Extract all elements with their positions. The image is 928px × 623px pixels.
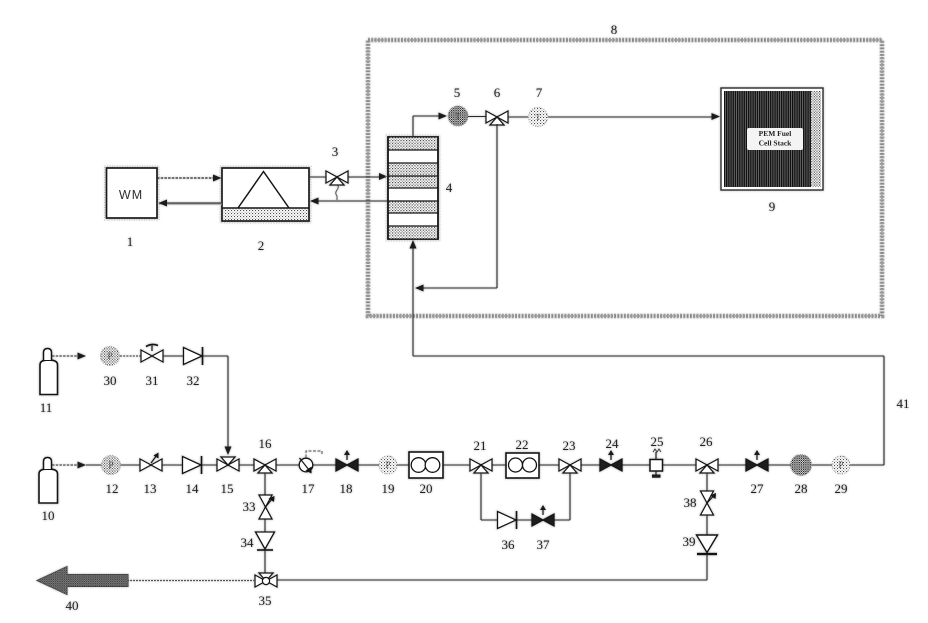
wire 4-top to 5 (413, 113, 447, 138)
three-way valve 35 (255, 573, 277, 587)
valve 31 (141, 344, 163, 362)
check valve 36 (498, 511, 517, 529)
svg-text:16: 16 (259, 436, 273, 451)
wire 2-to-4 supply through valve 3 (309, 173, 388, 180)
wire 5-to-6 (468, 116, 487, 118)
svg-text:31: 31 (146, 373, 159, 388)
gas cylinder 11 (40, 349, 58, 395)
svg-text:9: 9 (769, 199, 776, 214)
svg-text:35: 35 (259, 593, 272, 608)
wire 32 to valve 15 drop (203, 356, 232, 455)
svg-text:39: 39 (683, 534, 696, 549)
svg-text:4: 4 (446, 180, 453, 195)
svg-text:P: P (107, 351, 112, 361)
svg-text:WM: WM (119, 188, 143, 202)
valve 13 (140, 453, 162, 472)
svg-text:19: 19 (382, 481, 395, 496)
svg-text:27: 27 (751, 481, 765, 496)
wire 11-to-30 (52, 353, 86, 360)
check valve 34 (256, 532, 275, 550)
valve 18 (336, 450, 358, 471)
svg-text:30: 30 (104, 373, 117, 388)
enclosure box 8 (test station boundary) (368, 40, 882, 316)
wire 1-to-2 supply (157, 175, 222, 182)
svg-text:18: 18 (340, 481, 353, 496)
valve 24 (600, 450, 622, 471)
svg-text:17: 17 (302, 481, 316, 496)
three-way valve 23 (559, 459, 581, 473)
svg-text:15: 15 (221, 481, 234, 496)
heat exchanger box 2 (220, 166, 311, 223)
svg-text:8: 8 (611, 22, 618, 37)
three-way valve 3 (326, 171, 348, 200)
svg-text:38: 38 (684, 495, 697, 510)
svg-text:P: P (838, 460, 843, 470)
svg-text:P: P (108, 460, 113, 470)
water module box 1 (WM) (105, 166, 160, 220)
three-way valve 21 (470, 459, 492, 473)
wire 30-to-31 (120, 355, 141, 357)
gas cylinder 10 (39, 458, 58, 504)
svg-text:25: 25 (651, 434, 664, 449)
sensor 5 (speckled instrument) (448, 106, 468, 126)
vent line to exhaust (128, 579, 707, 582)
wire 4-to-2 return (310, 198, 388, 205)
sensor 19 (pressure) (379, 456, 397, 474)
svg-text:11: 11 (40, 400, 53, 415)
valve 37 (532, 505, 554, 526)
three-way valve 15 (217, 457, 239, 471)
svg-text:23: 23 (563, 438, 576, 453)
svg-text:14: 14 (186, 481, 200, 496)
check valve 32 (184, 347, 203, 365)
svg-text:26: 26 (700, 434, 714, 449)
wire 2-to-1 return (159, 200, 223, 207)
svg-text:T: T (536, 113, 541, 122)
svg-text:10: 10 (42, 508, 55, 523)
svg-text:3: 3 (332, 144, 339, 159)
svg-text:20: 20 (420, 481, 433, 496)
svg-text:T: T (456, 112, 461, 121)
check valve 14 (183, 456, 202, 474)
svg-text:22: 22 (516, 437, 529, 452)
svg-text:1: 1 (127, 234, 134, 249)
sensor 29 (pressure) (832, 456, 850, 474)
svg-text:40: 40 (66, 598, 79, 613)
vent wire 26 down (706, 473, 708, 580)
flow meter 20 (409, 452, 443, 478)
back-pressure regulator 25 (650, 449, 663, 478)
flow meter 22 (506, 453, 539, 478)
svg-text:21: 21 (474, 438, 487, 453)
three-way valve 26 (696, 459, 718, 473)
svg-text:12: 12 (106, 481, 119, 496)
wire 31-to-32 (163, 355, 183, 357)
sensor 7 (speckled instrument) (529, 108, 548, 127)
svg-text:34: 34 (241, 535, 255, 550)
wire 7-to-9 (548, 113, 720, 120)
exhaust arrow 40 (37, 567, 128, 595)
valve 38 (701, 491, 717, 515)
bypass wire 21-36-37-23 (481, 473, 570, 520)
svg-text:33: 33 (243, 499, 256, 514)
three-way valve 16 (254, 459, 276, 473)
svg-text:32: 32 (187, 373, 200, 388)
valve 27 (746, 450, 768, 471)
svg-text:PEM Fuel: PEM Fuel (759, 129, 792, 138)
three-way valve 6 (486, 111, 508, 125)
main process line (52, 462, 884, 469)
wire 6 bypass to humidifier return line (415, 124, 497, 292)
purge wire 16 down to vent line (264, 473, 266, 580)
svg-text:6: 6 (494, 85, 501, 100)
svg-text:41: 41 (897, 396, 910, 411)
wire 6-to-7 (508, 116, 528, 118)
svg-text:Cell Stack: Cell Stack (759, 139, 793, 148)
wire humidifier bottom feed (410, 240, 417, 356)
svg-text:24: 24 (606, 436, 620, 451)
svg-text:P: P (385, 460, 390, 470)
sensor 12 (speckled instrument) (102, 456, 121, 475)
filter 28 (dark speckled) (791, 455, 812, 476)
svg-text:13: 13 (144, 481, 157, 496)
svg-text:29: 29 (835, 481, 848, 496)
svg-text:36: 36 (502, 537, 516, 552)
svg-text:7: 7 (536, 85, 543, 100)
sensor 30 (speckled instrument) (101, 347, 120, 366)
PEM fuel cell stack 9 (721, 88, 823, 190)
svg-text:2: 2 (258, 238, 265, 253)
humidifier column 4 (386, 135, 440, 241)
regulator 17 (299, 451, 322, 474)
svg-text:37: 37 (537, 537, 551, 552)
valve 33 (259, 495, 275, 519)
recycle line 41 (413, 356, 884, 465)
svg-text:28: 28 (795, 481, 808, 496)
check valve 39 (697, 535, 718, 554)
svg-text:5: 5 (454, 85, 461, 100)
